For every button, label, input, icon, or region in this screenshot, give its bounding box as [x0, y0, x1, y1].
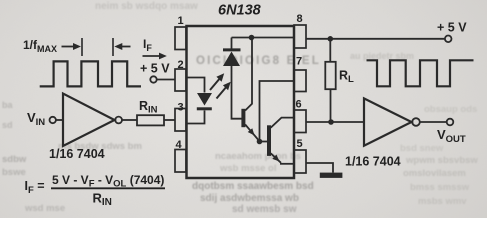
svg-text:bmss smssw: bmss smssw — [410, 182, 470, 193]
svg-text:ncaeahom paon bs: ncaeahom paon bs — [215, 151, 301, 162]
svg-text:6N138: 6N138 — [218, 3, 262, 19]
svg-text:+ 5 V: + 5 V — [437, 20, 467, 34]
svg-text:sdij asdwbemssa wb: sdij asdwbemssa wb — [200, 193, 299, 204]
svg-text:+ 5 V: + 5 V — [140, 62, 170, 76]
svg-text:sd wemsb sw: sd wemsb sw — [232, 204, 297, 215]
svg-text:obsaup ods: obsaup ods — [424, 104, 477, 115]
svg-text:OICIOIOIG8 E EL: OICIOIOIG8 E EL — [196, 55, 321, 67]
svg-text:3: 3 — [178, 102, 184, 114]
svg-text:bswe: bswe — [2, 167, 26, 178]
svg-text:dqotbsm ssaawbesm bsd: dqotbsm ssaawbesm bsd — [192, 181, 314, 192]
svg-text:neim sb wsdqo msaw: neim sb wsdqo msaw — [95, 1, 198, 12]
svg-text:wsd mse: wsd mse — [24, 203, 65, 214]
svg-text:1/16 7404: 1/16 7404 — [49, 147, 105, 161]
svg-text:1/16 7404: 1/16 7404 — [345, 155, 401, 169]
svg-text:7: 7 — [296, 56, 302, 68]
svg-text:4: 4 — [176, 139, 183, 151]
svg-text:5: 5 — [297, 138, 303, 150]
svg-text:ba: ba — [2, 100, 13, 110]
svg-text:msbs wmv: msbs wmv — [418, 196, 467, 207]
svg-text:wpwm sbsvbsw: wpwm sbsvbsw — [405, 155, 478, 166]
svg-text:omslovilasem: omslovilasem — [403, 168, 466, 179]
svg-text:6: 6 — [296, 99, 302, 111]
svg-text:1: 1 — [178, 15, 184, 27]
svg-text:sd: sd — [2, 120, 13, 130]
svg-text:sdbw: sdbw — [2, 154, 27, 165]
svg-text:2: 2 — [178, 59, 184, 71]
svg-text:bsd snew: bsd snew — [400, 143, 444, 154]
svg-text:wsb msse ol: wsb msse ol — [219, 163, 277, 174]
svg-text:8: 8 — [297, 13, 303, 25]
